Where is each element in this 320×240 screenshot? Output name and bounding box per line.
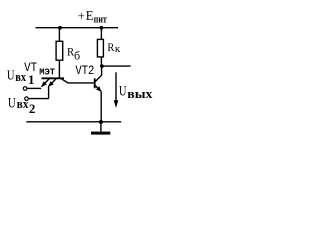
svg-text:2: 2 <box>29 101 36 116</box>
svg-text:пит: пит <box>94 14 107 26</box>
svg-text:U: U <box>119 84 127 100</box>
svg-text:VT2: VT2 <box>75 63 94 78</box>
svg-text:+: + <box>78 9 85 23</box>
svg-text:E: E <box>86 9 94 24</box>
svg-text:U: U <box>8 95 16 111</box>
svg-text:вых: вых <box>127 86 153 101</box>
svg-text:вх: вх <box>15 69 26 84</box>
svg-text:к: к <box>115 43 121 55</box>
svg-text:R: R <box>107 40 114 54</box>
svg-text:б: б <box>74 49 80 63</box>
svg-text:U: U <box>7 69 15 84</box>
svg-text:1: 1 <box>28 72 35 87</box>
svg-text:вх: вх <box>17 96 29 111</box>
svg-text:МЭТ: МЭТ <box>39 67 55 78</box>
